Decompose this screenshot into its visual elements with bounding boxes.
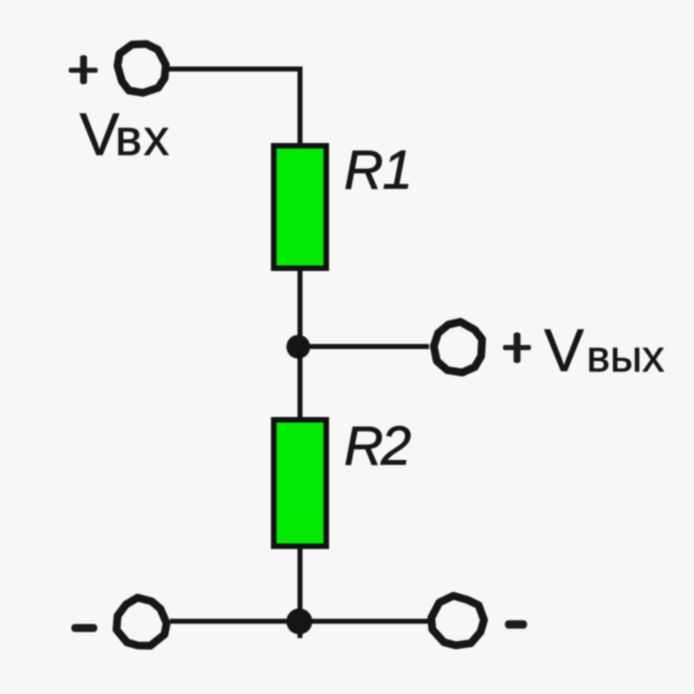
svg-text:R2: R2 (344, 416, 411, 477)
resistor R2 (271, 417, 329, 549)
wire corner down to R1 (298, 67, 303, 147)
node junction (middle) (286, 335, 310, 359)
svg-text:вых: вых (587, 333, 665, 382)
minus sign bottom left (71, 624, 97, 632)
terminal T1 (input +, top left) (118, 44, 166, 93)
plus sign at output (503, 333, 531, 364)
terminal TbL (bottom left -) (117, 598, 167, 646)
plus sign at input terminal (69, 55, 98, 84)
svg-text:V: V (80, 101, 120, 168)
wire junction to output terminal (298, 344, 429, 349)
minus sign bottom right (505, 620, 527, 628)
wire R1 to middle junction (298, 269, 303, 352)
wire junction to R2 (298, 347, 303, 419)
svg-text:R1: R1 (344, 140, 412, 201)
resistor R1 (271, 143, 329, 271)
bottom horizontal wire (170, 619, 429, 624)
svg-text:V: V (544, 317, 584, 384)
terminal Tout (output +) (434, 322, 482, 373)
wire R2 to bottom junction (298, 547, 303, 638)
svg-text:вх: вх (115, 109, 171, 166)
wire from T1 to corner (168, 67, 301, 72)
terminal TbR (bottom right -) (431, 596, 484, 646)
node junction (bottom) (286, 608, 312, 634)
